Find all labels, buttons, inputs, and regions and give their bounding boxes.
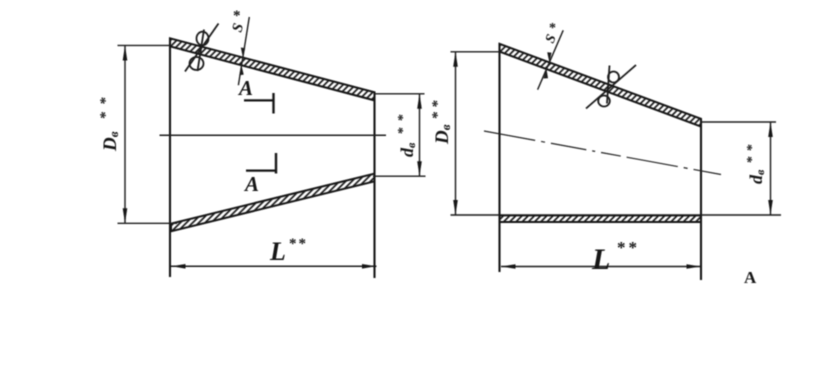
svg-text:*: * — [233, 8, 241, 24]
svg-text:**: ** — [617, 238, 637, 257]
svg-text:L: L — [591, 243, 610, 276]
svg-text:А: А — [744, 268, 757, 287]
svg-text:dв**: dв** — [396, 114, 418, 157]
svg-text:L: L — [269, 237, 286, 266]
svg-text:*: * — [549, 21, 556, 36]
svg-text:**: ** — [289, 236, 306, 252]
svg-text:dв**: dв** — [745, 144, 767, 184]
svg-text:Dв**: Dв** — [430, 100, 453, 145]
svg-text:Dв**: Dв** — [98, 97, 121, 152]
svg-text:A: A — [243, 172, 259, 196]
